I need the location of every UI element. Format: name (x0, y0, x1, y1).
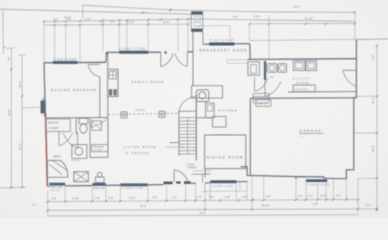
svg-text:4": 4" (301, 136, 303, 138)
svg-text:2-2'8x5'-0 DH: 2-2'8x5'-0 DH (211, 185, 233, 188)
svg-text:UTILITY: UTILITY (293, 76, 312, 80)
svg-text:24'-2": 24'-2" (294, 5, 301, 9)
svg-text:STEP DN: STEP DN (258, 103, 268, 105)
svg-text:2'-0": 2'-0" (308, 195, 313, 198)
svg-text:61'-0": 61'-0" (200, 211, 207, 215)
svg-text:BREAKFAST NOOK: BREAKFAST NOOK (200, 49, 248, 53)
svg-text:1'-8": 1'-8" (152, 197, 157, 200)
svg-text:11'-10": 11'-10" (127, 21, 135, 24)
svg-text:11'-8": 11'-8" (163, 21, 169, 24)
svg-text:2-2'8x5'-0 DH: 2-2'8x5'-0 DH (122, 187, 144, 190)
svg-text:2'-8": 2'-8" (233, 16, 238, 19)
svg-text:12'-0": 12'-0" (18, 143, 22, 150)
svg-text:2'-8x4'-0 CSMT: 2'-8x4'-0 CSMT (53, 58, 77, 61)
svg-text:1'-10": 1'-10" (320, 195, 326, 198)
svg-text:1'-8": 1'-8" (98, 21, 103, 24)
svg-text:21'-10": 21'-10" (305, 16, 313, 20)
svg-text:9'-8": 9'-8" (209, 196, 214, 199)
svg-text:1'-10": 1'-10" (224, 196, 230, 199)
svg-text:R.O. 3-0: R.O. 3-0 (51, 190, 60, 192)
svg-text:7'-8": 7'-8" (67, 18, 72, 21)
svg-text:BATH: BATH (54, 154, 61, 158)
svg-text:24'-8": 24'-8" (7, 109, 11, 116)
svg-text:29'-10": 29'-10" (262, 204, 270, 208)
svg-text:9'-6": 9'-6" (313, 203, 318, 206)
svg-text:PORCH: PORCH (188, 167, 197, 170)
svg-text:4'-10": 4'-10" (73, 197, 79, 200)
svg-text:1'-8": 1'-8" (95, 197, 100, 200)
svg-text:7'-8": 7'-8" (7, 57, 11, 62)
svg-text:4'-7x5'-0: 4'-7x5'-0 (72, 160, 81, 162)
svg-text:MASTER BEDROOM: MASTER BEDROOM (51, 88, 98, 92)
svg-text:5'-2": 5'-2" (53, 19, 58, 22)
svg-text:2'-8": 2'-8" (109, 197, 114, 200)
svg-text:CLOSET: CLOSET (49, 127, 59, 130)
svg-text:4'-0": 4'-0" (52, 198, 57, 201)
svg-text:5'-0 CLG: 5'-0 CLG (136, 110, 145, 112)
svg-text:C-4'8x5'-0 CSMT: C-4'8x5'-0 CSMT (118, 47, 146, 50)
svg-text:3-0x5-0 SLDR: 3-0x5-0 SLDR (307, 183, 329, 186)
svg-text:2-8x6-8 SLD: 2-8x6-8 SLD (166, 147, 184, 149)
svg-text:5'-9": 5'-9" (266, 195, 271, 198)
svg-text:2'-8": 2'-8" (110, 21, 115, 24)
svg-text:KITCHEN: KITCHEN (218, 109, 237, 113)
svg-text:4'-0": 4'-0" (371, 55, 375, 60)
svg-text:4'-0x5'-0 CSMT: 4'-0x5'-0 CSMT (210, 39, 235, 42)
svg-text:3'-0": 3'-0" (298, 195, 303, 198)
svg-text:31'-2": 31'-2" (140, 204, 147, 208)
svg-text:2'8x5'-0 DH: 2'8x5'-0 DH (93, 188, 105, 190)
svg-text:7½: 7½ (3, 45, 6, 49)
svg-text:28'-4": 28'-4" (141, 10, 148, 14)
svg-text:2'8x5'-0 DH: 2'8x5'-0 DH (50, 186, 63, 189)
svg-text:FAMILY ROOM: FAMILY ROOM (132, 80, 165, 84)
svg-text:ROOM: ROOM (296, 81, 310, 85)
svg-text:2'-0": 2'-0" (366, 204, 371, 207)
svg-text:GARAGE: GARAGE (299, 129, 322, 133)
svg-text:LIVING ROOM: LIVING ROOM (124, 145, 157, 149)
svg-text:1'-4: 1'-4 (32, 204, 37, 207)
svg-text:2'-8": 2'-8" (242, 196, 247, 199)
svg-text:8' CEILING: 8' CEILING (126, 151, 150, 155)
svg-text:4'-2": 4'-2" (197, 196, 202, 199)
svg-text:CLOSET: CLOSET (94, 150, 103, 152)
svg-text:16'-4": 16'-4" (18, 81, 22, 88)
svg-text:4'-10": 4'-10" (254, 16, 260, 19)
svg-text:4'-10": 4'-10" (129, 197, 135, 200)
svg-text:2'-8": 2'-8" (86, 18, 91, 21)
svg-text:MEDIA RM: MEDIA RM (93, 146, 104, 149)
svg-text:WALK-IN: WALK-IN (48, 122, 59, 125)
svg-text:16'-2": 16'-2" (371, 97, 375, 104)
svg-text:4'-0": 4'-0" (336, 195, 341, 198)
svg-text:20'-8": 20'-8" (371, 145, 375, 152)
svg-text:2'-8": 2'-8" (172, 196, 177, 199)
svg-text:5'0x2'0 CNTR: 5'0x2'0 CNTR (295, 89, 308, 91)
svg-text:DINING ROOM: DINING ROOM (207, 155, 244, 159)
